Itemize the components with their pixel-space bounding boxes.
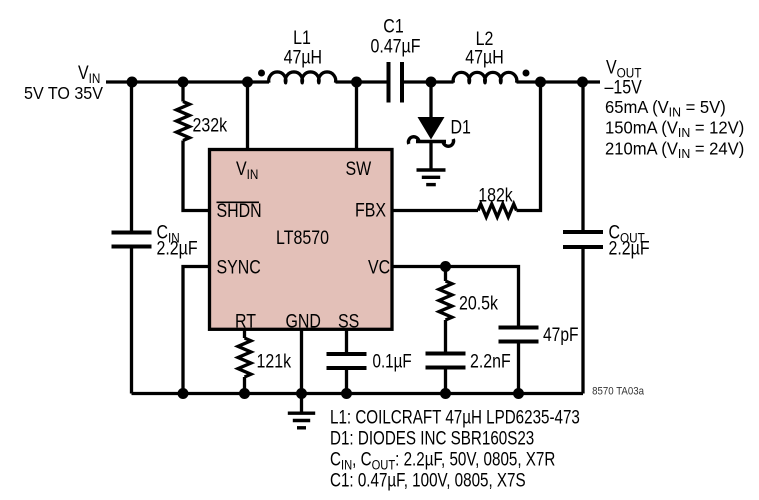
wire D1 anode stem [429,82,432,119]
svg-text:FBX: FBX [355,199,386,221]
wire top rail C1-to-L2 segment [404,80,454,83]
wire 20.5k to 2.2nF [444,320,447,352]
wire RT pin to 121k [243,329,246,338]
wire 182k to vertical riser [517,82,541,211]
svg-text:121k: 121k [257,350,292,372]
wire 47pF to bottom rail [517,343,520,393]
node SW pin [351,77,362,88]
svg-text:20.5k: 20.5k [459,292,498,314]
wire VC pin run [392,267,519,326]
svg-text:5V TO 35V: 5V TO 35V [24,83,104,103]
wire 232k to SHDN pin [183,141,210,211]
node FBX riser [535,77,546,88]
svg-text:D1: DIODES INC SBR160S23: D1: DIODES INC SBR160S23 [330,427,534,449]
wire GND ground stem [300,394,303,413]
wire FBX to 182k [392,209,478,212]
capacitor 0.1uF [327,350,412,372]
svg-text:0.1µF: 0.1µF [373,350,412,372]
svg-text:GND: GND [286,310,321,332]
node VIN pin [242,77,253,88]
resistor R 121k [238,338,291,377]
svg-text:L1: L1 [293,27,311,49]
svg-text:182k: 182k [478,184,513,206]
capacitor CIN [112,221,198,259]
inductor L1 [258,27,336,83]
svg-text:D1: D1 [451,116,471,138]
svg-text:C1: 0.47µF, 100V, 0805, X7S: C1: 0.47µF, 100V, 0805, X7S [330,469,526,491]
wire SW pin [355,82,358,151]
svg-text:65mA (VIN = 5V): 65mA (VIN = 5V) [605,98,726,120]
node VIN input label [24,62,104,103]
ground (GND pin) [288,413,315,428]
note footnotes [330,406,580,491]
capacitor 2.2nF [426,350,511,372]
node 2.2nF gnd [440,388,451,399]
svg-text:8570 TA03a: 8570 TA03a [592,386,644,398]
node CIN tap [127,77,138,88]
node 232k tap [178,77,189,88]
capacitor 47pF [499,324,579,346]
wire SS pin to 0.1uF [345,329,348,352]
resistor R 20.5k [439,281,498,320]
svg-text:VC: VC [368,256,390,278]
node VC divider [440,261,451,272]
wire SYNC pin down to bottom rail [183,267,210,394]
wire 0.1uF to bottom rail [345,370,348,394]
svg-text:–15V: –15V [605,76,643,98]
svg-text:2.2µF: 2.2µF [157,237,198,259]
wire 2.2nF to bottom rail [444,369,447,393]
wire right rail lower (COUT to bottom rail) [581,249,584,394]
wire 121k to bottom rail [243,377,246,394]
inductor L2 [453,28,529,83]
svg-text:2.2nF: 2.2nF [470,350,511,372]
node SS gnd [341,388,352,399]
svg-text:47µH: 47µH [284,46,322,68]
capacitor C1 [371,15,421,102]
ground (D1 cathode) [417,170,446,185]
svg-text:C1: C1 [383,15,403,37]
svg-text:47pF: 47pF [543,324,578,346]
wire 232k branch from top rail [181,82,184,102]
svg-text:SHDN: SHDN [217,200,262,222]
resistor R 232k [177,102,228,141]
wire D1 cathode stem to ground [429,143,432,169]
wire CIN branch upper [130,82,133,231]
svg-text:210mA (VIN = 24V): 210mA (VIN = 24V) [605,139,744,161]
svg-text:RT: RT [235,310,256,332]
svg-text:SS: SS [338,310,359,332]
wire bottom ground rail [132,392,584,395]
capacitor COUT [563,221,650,259]
wire VC node down to 20.5k [444,267,447,282]
svg-text:47µH: 47µH [465,46,503,68]
wire top rail L2-to-VOUT segment [517,80,601,83]
wire VIN top rail left segment [106,80,269,83]
node D1 tap [426,77,437,88]
wire CIN branch lower to bottom rail [130,248,133,393]
node VOUT tap [577,77,588,88]
node SYNC gnd [178,388,189,399]
wire top rail L1-to-C1 segment [336,80,387,83]
svg-text:232k: 232k [193,114,228,136]
node GND pin gnd [296,388,307,399]
node RT gnd [239,388,250,399]
svg-text:LT8570: LT8570 [276,227,329,249]
wire GND pin to bottom rail [300,329,303,394]
svg-text:SW: SW [346,158,372,180]
diode D1 (schottky) [408,116,470,146]
svg-text:2.2µF: 2.2µF [609,237,650,259]
node VOUT output labels [605,56,745,161]
node 47pF gnd [513,388,524,399]
resistor R 182k [478,184,517,217]
svg-text:150mA (VIN = 12V): 150mA (VIN = 12V) [605,118,744,140]
note figure tag 8570 TA03a [592,386,644,398]
op IC U1 LT8570 [210,150,393,332]
svg-text:0.47µF: 0.47µF [371,35,421,57]
wire VIN pin [246,82,249,151]
svg-text:L1: COILCRAFT 47µH LPD6235-473: L1: COILCRAFT 47µH LPD6235-473 [330,406,580,428]
svg-text:SYNC: SYNC [217,256,261,278]
wire right rail upper (top rail to COUT) [581,82,584,230]
